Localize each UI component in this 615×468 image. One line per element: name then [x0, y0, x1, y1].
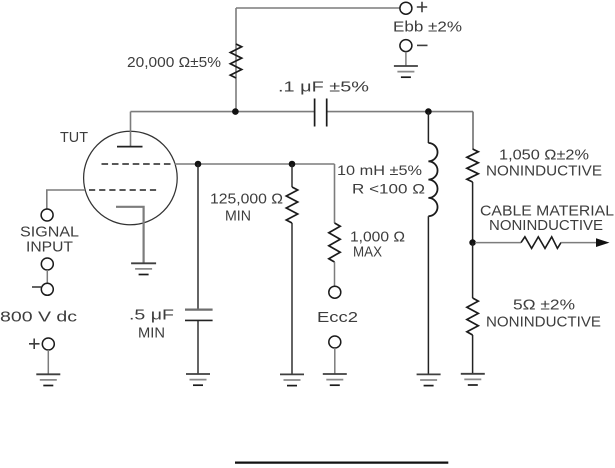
- wire Ecc2 stem: [334, 348, 336, 374]
- bottom rule line: [235, 461, 448, 463]
- terminal Ecc2 upper circle: [329, 286, 341, 298]
- terminal Ebb minus circle: [400, 40, 412, 52]
- wire Ebb minus stem: [405, 52, 407, 66]
- wire R2 column upper: [291, 164, 293, 187]
- tube V1 cathode: [116, 207, 144, 263]
- wire C2 column lower: [197, 320, 199, 373]
- wire R4 to output node: [472, 182, 474, 243]
- terminal signal pair upper circle: [41, 258, 53, 270]
- resistor R5 5 ohm zigzag: [467, 298, 478, 335]
- svg-text:R <100 Ω: R <100 Ω: [352, 181, 425, 197]
- resistor R2 125,000 ohm zigzag: [286, 187, 297, 223]
- minus sign supply: [32, 286, 41, 288]
- svg-text:10 mH ±5%: 10 mH ±5%: [337, 162, 422, 178]
- node junction dot grid to C2: [195, 161, 202, 168]
- svg-text:.5 μF: .5 μF: [129, 308, 174, 324]
- wire C2 column upper: [197, 164, 199, 309]
- wire grid2 solid to signal input: [47, 190, 85, 209]
- wire between pair terminals: [46, 270, 48, 283]
- ground cathode: [131, 263, 156, 274]
- wire bus corner to R4: [472, 112, 474, 149]
- terminal signal pair lower circle: [41, 283, 53, 295]
- svg-text:125,000 Ω: 125,000 Ω: [210, 192, 283, 208]
- node junction dot grid to R2: [289, 161, 296, 168]
- plus sign supply: [29, 339, 40, 350]
- svg-text:Ebb ±2%: Ebb ±2%: [393, 20, 462, 36]
- wire output node down to R5: [472, 243, 474, 298]
- wire R3 lower lead: [334, 262, 336, 286]
- resistor R1 20,000 ohm zigzag: [230, 44, 241, 78]
- wire L1 lower lead: [427, 216, 429, 374]
- resistor R4 1,050 ohm zigzag: [467, 149, 478, 182]
- wire top bus from R1 top to Ebb + terminal: [236, 7, 400, 9]
- terminal Ecc2 lower circle: [329, 336, 341, 348]
- resistor R3 1,000 ohm zigzag: [329, 223, 340, 262]
- arrow output: [596, 238, 610, 247]
- svg-text:INPUT: INPUT: [26, 240, 73, 256]
- node junction dot R1 bottom on bus: [232, 108, 239, 115]
- svg-text:TUT: TUT: [60, 130, 88, 146]
- tube V1 plate lead: [130, 112, 132, 147]
- svg-text:NONINDUCTIVE: NONINDUCTIVE: [486, 164, 602, 180]
- capacitor C2 .5 uF plates: [185, 309, 213, 311]
- ground L1: [417, 374, 441, 385]
- svg-text:20,000 Ω±5%: 20,000 Ω±5%: [127, 55, 221, 71]
- ground Ebb: [394, 66, 418, 77]
- terminal signal input top circle: [41, 209, 53, 221]
- tube V1 envelope circle: [84, 131, 178, 225]
- tube V1 grid 1 dashed: [102, 163, 171, 165]
- node junction dot L1 top on bus: [425, 108, 432, 115]
- ground Ecc2: [323, 374, 347, 385]
- ground C2: [186, 374, 210, 385]
- ground R5: [461, 374, 485, 385]
- wire cable resistor to arrow: [561, 242, 597, 244]
- minus sign Ebb: [417, 44, 428, 46]
- wire main plate bus left of C1: [131, 111, 315, 113]
- tube V1 grid 2 dashed: [89, 189, 156, 191]
- plus sign Ebb: [417, 2, 427, 12]
- svg-text:800 V dc: 800 V dc: [0, 310, 77, 326]
- resistor cable material zigzag: [521, 237, 561, 249]
- wire grid1 drop to R3: [334, 164, 336, 223]
- terminal Ebb plus circle: [400, 2, 412, 14]
- capacitor C1 .1 uF plates: [315, 99, 327, 127]
- wire R2 column lower: [291, 223, 293, 374]
- svg-text:SIGNAL: SIGNAL: [20, 225, 79, 241]
- ground R2: [280, 374, 304, 385]
- wire grid1 net solid: [175, 163, 335, 165]
- svg-text:5Ω ±2%: 5Ω ±2%: [513, 298, 575, 314]
- svg-text:.1 μF ±5%: .1 μF ±5%: [278, 80, 369, 96]
- wire 800V stem: [47, 350, 49, 374]
- wire main plate bus right of C1: [327, 111, 473, 113]
- svg-text:NONINDUCTIVE: NONINDUCTIVE: [486, 315, 601, 331]
- tube V1 plate bar: [117, 146, 143, 148]
- svg-text:MIN: MIN: [138, 326, 165, 342]
- svg-text:Ecc2: Ecc2: [317, 310, 358, 326]
- svg-text:1,000 Ω: 1,000 Ω: [350, 230, 405, 246]
- wire R5 lower lead: [472, 335, 474, 374]
- svg-text:1,050 Ω±2%: 1,050 Ω±2%: [499, 148, 589, 164]
- wire L1 upper lead: [427, 112, 429, 143]
- svg-text:MAX: MAX: [353, 245, 382, 261]
- ground 800V: [36, 374, 60, 385]
- svg-text:MIN: MIN: [225, 209, 251, 225]
- wire output to cable resistor: [475, 242, 521, 244]
- inductor L1 10 mH coil: [428, 143, 437, 216]
- wire vertical through R1 (20k leads): [235, 8, 237, 112]
- terminal 800V circle: [42, 338, 54, 350]
- node output junction dot: [469, 239, 476, 246]
- svg-text:NONINDUCTIVE: NONINDUCTIVE: [489, 218, 603, 234]
